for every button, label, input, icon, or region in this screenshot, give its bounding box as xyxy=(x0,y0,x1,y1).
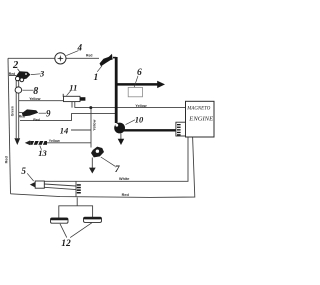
svg-text:12: 12 xyxy=(61,239,71,249)
svg-text:White: White xyxy=(119,177,129,181)
svg-text:13: 13 xyxy=(38,148,47,158)
svg-text:Yellow: Yellow xyxy=(29,97,40,101)
svg-text:ENGINE: ENGINE xyxy=(188,116,213,123)
svg-text:10: 10 xyxy=(135,115,144,125)
svg-text:Red: Red xyxy=(122,193,130,197)
svg-text:Yellow: Yellow xyxy=(49,139,60,143)
svg-text:4: 4 xyxy=(77,43,83,53)
svg-text:Red: Red xyxy=(19,114,25,118)
svg-text:1: 1 xyxy=(94,73,99,83)
svg-text:11: 11 xyxy=(69,82,77,92)
svg-text:Red: Red xyxy=(86,53,92,57)
svg-text:Yellow: Yellow xyxy=(92,119,96,130)
svg-text:Red: Red xyxy=(33,118,40,122)
svg-text:14: 14 xyxy=(60,126,69,136)
svg-text:6: 6 xyxy=(137,68,142,78)
svg-text:5: 5 xyxy=(21,166,26,176)
svg-text:Red: Red xyxy=(9,72,15,76)
svg-text:8: 8 xyxy=(33,86,38,97)
svg-text:2: 2 xyxy=(12,60,19,71)
svg-text:Yellow: Yellow xyxy=(135,104,146,108)
svg-text:MAGNETO: MAGNETO xyxy=(186,106,210,111)
svg-text:3: 3 xyxy=(39,69,45,79)
svg-text:Green: Green xyxy=(10,106,14,116)
svg-text:Red: Red xyxy=(5,156,9,164)
svg-text:9: 9 xyxy=(46,109,51,119)
